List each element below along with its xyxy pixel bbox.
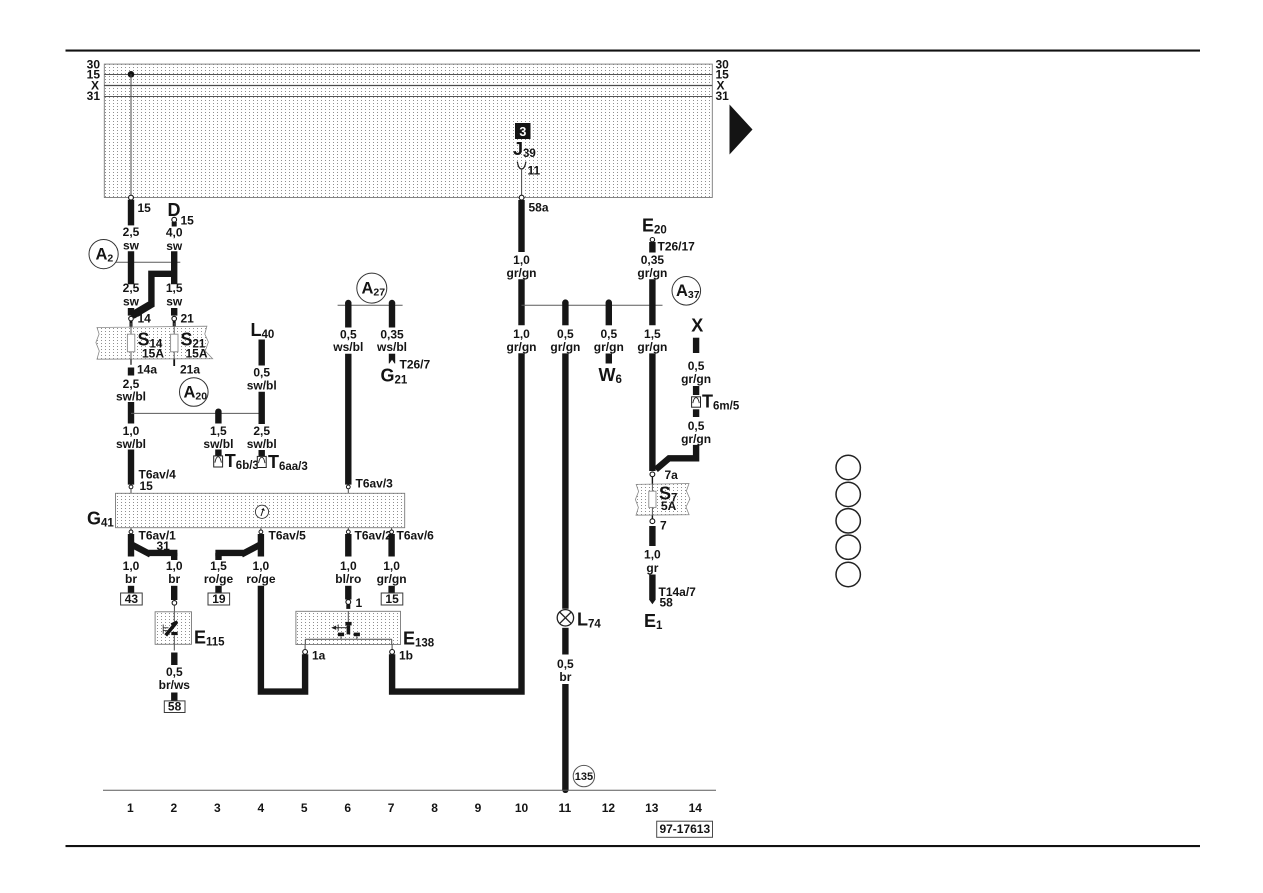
wire stub to E138 pin 1 xyxy=(345,586,351,600)
wire label 1,0 br (track1) xyxy=(123,559,140,586)
svg-text:0,5: 0,5 xyxy=(253,365,270,379)
wire 1,0 gr/gn from 58a (track10) xyxy=(518,200,524,252)
terminal T6av/1 xyxy=(129,528,176,553)
wire stub below E115 xyxy=(173,644,175,665)
wire label 1,0 gr/gn below junction xyxy=(507,327,537,354)
wire 0,5 ws/bl stub at A27 (track6) xyxy=(345,300,351,328)
terminal box 43 xyxy=(121,592,143,606)
svg-text:sw: sw xyxy=(123,295,140,309)
svg-text:3: 3 xyxy=(214,801,221,815)
svg-text:T6m/5: T6m/5 xyxy=(702,392,740,413)
wire label 1,5 ro/ge (track3) xyxy=(204,559,234,586)
svg-text:1,0: 1,0 xyxy=(644,547,661,561)
bottom page rule xyxy=(66,845,1201,847)
terminal 21a xyxy=(174,359,200,376)
wire stub to terminal 19 xyxy=(215,586,221,594)
terminal 14 xyxy=(129,312,151,327)
E138 label xyxy=(403,629,435,650)
horn W6 label xyxy=(599,365,622,386)
svg-text:gr/gn: gr/gn xyxy=(637,266,667,280)
sender G21 label xyxy=(381,366,408,387)
wire from X (track14) xyxy=(693,338,699,353)
svg-text:1,0: 1,0 xyxy=(166,559,183,573)
svg-text:E20: E20 xyxy=(642,216,667,237)
svg-text:gr/gn: gr/gn xyxy=(507,340,537,354)
wire label 2,5 sw xyxy=(123,225,140,253)
bus labels right xyxy=(716,57,730,103)
svg-text:E138: E138 xyxy=(403,629,435,650)
wire label 0,5 gr/gn below T6m/5 xyxy=(681,419,711,446)
wire label 1,0 gr/gn xyxy=(377,559,407,586)
junction stub track11 xyxy=(562,299,568,325)
svg-text:1,5: 1,5 xyxy=(644,327,661,341)
A27 junction line xyxy=(338,304,403,306)
svg-text:br: br xyxy=(125,572,137,586)
svg-text:19: 19 xyxy=(212,592,226,606)
bus labels left xyxy=(87,57,101,103)
terminal T6av/4 xyxy=(129,485,133,493)
svg-text:E115: E115 xyxy=(194,628,225,649)
svg-text:gr/gn: gr/gn xyxy=(681,432,711,446)
svg-text:58: 58 xyxy=(660,596,674,610)
binder hole 2 xyxy=(836,482,860,506)
terminal label T14a/7 58 xyxy=(659,585,697,610)
binder hole 4 xyxy=(836,535,860,559)
terminal box 58 xyxy=(164,699,185,713)
svg-text:1b: 1b xyxy=(399,649,413,663)
svg-text:31: 31 xyxy=(716,89,730,103)
svg-text:br: br xyxy=(559,670,571,684)
svg-text:15A: 15A xyxy=(142,347,164,361)
svg-text:12: 12 xyxy=(602,801,616,815)
wire label 0,35 ws/bl xyxy=(376,327,407,354)
bus line X xyxy=(104,85,712,87)
svg-text:135: 135 xyxy=(575,771,593,783)
connector T6aa/3 xyxy=(257,450,307,473)
wire label 4,0 sw xyxy=(166,226,183,253)
switch E138 box xyxy=(296,611,401,644)
wire label 2,5 sw/bl xyxy=(247,424,277,451)
diagram number box 97-17613 xyxy=(657,821,713,837)
svg-text:15A: 15A xyxy=(186,347,208,361)
svg-text:21: 21 xyxy=(181,312,195,326)
wire label 0,5 ws/bl xyxy=(332,327,363,354)
pin label 11 xyxy=(528,164,541,178)
A37 junction line xyxy=(522,304,663,306)
svg-text:gr/gn: gr/gn xyxy=(550,340,580,354)
G41 label xyxy=(87,509,114,530)
switch E115 box xyxy=(155,612,191,645)
svg-text:1: 1 xyxy=(356,596,363,610)
svg-text:sw/bl: sw/bl xyxy=(203,437,233,451)
wire label 1,0 br (track2) xyxy=(166,559,183,586)
switch E20 label xyxy=(642,216,667,237)
svg-text:1: 1 xyxy=(127,801,134,815)
svg-text:sw: sw xyxy=(123,239,140,253)
svg-text:sw: sw xyxy=(166,295,183,309)
bus line 15 xyxy=(104,74,712,76)
wire from 1b to track10 riser xyxy=(392,353,521,691)
wire label 0,5 br xyxy=(557,657,574,684)
svg-text:gr/gn: gr/gn xyxy=(637,340,667,354)
wire from T6av/1 (track1) xyxy=(128,534,134,557)
wire from T6av/6 (track7) xyxy=(388,534,394,557)
connector A20 xyxy=(180,378,209,407)
terminal T6av/6 xyxy=(390,528,434,543)
svg-text:T26/17: T26/17 xyxy=(658,240,696,254)
fuse S14 element xyxy=(127,323,134,359)
fuse S21 element xyxy=(171,323,178,359)
terminal 58a at bus box bottom xyxy=(519,195,524,200)
terminal 1 of E138 xyxy=(346,596,363,610)
svg-text:15: 15 xyxy=(140,479,154,493)
binder hole 3 xyxy=(836,509,860,533)
wire 1,5 gr/gn down to fuse S7 (track13) xyxy=(649,353,655,471)
direction arrow xyxy=(730,105,753,155)
wire label 1,5 gr/gn xyxy=(637,327,667,354)
track numbers xyxy=(127,801,702,815)
wire elbow from track2 to track1 xyxy=(151,274,174,307)
svg-text:gr/gn: gr/gn xyxy=(377,572,407,586)
svg-text:4,0: 4,0 xyxy=(166,226,183,240)
terminal box 19 xyxy=(208,592,230,606)
gauge symbol inside G41 xyxy=(255,505,268,518)
svg-text:5: 5 xyxy=(301,801,308,815)
wire stub to terminal 58 xyxy=(171,693,177,701)
svg-text:5A: 5A xyxy=(661,499,677,513)
svg-text:2,5: 2,5 xyxy=(123,225,140,239)
terminal label T26/7 xyxy=(400,358,431,372)
wire 1,0 sw/bl down to G41 (track1) xyxy=(128,450,134,485)
svg-text:15: 15 xyxy=(138,201,152,215)
wire from T6av/2 (track6) xyxy=(345,534,351,557)
bus box (stippled) xyxy=(104,64,712,197)
fuse box S7 (torn stippled) xyxy=(635,484,690,516)
svg-text:1,5: 1,5 xyxy=(210,424,227,438)
bottom track line xyxy=(103,789,716,791)
J39 label xyxy=(513,139,536,160)
svg-text:1,0: 1,0 xyxy=(340,559,357,573)
wire down to E1 terminal (track13) xyxy=(649,575,655,605)
svg-text:ws/bl: ws/bl xyxy=(332,340,363,354)
switch E1 label xyxy=(644,611,663,632)
terminal 7 xyxy=(650,515,667,532)
svg-text:14a: 14a xyxy=(137,363,157,377)
svg-text:15: 15 xyxy=(385,592,399,606)
wire diagonal T6av/5 branch xyxy=(241,545,259,555)
wire label 1,5 sw/bl xyxy=(203,424,233,451)
svg-text:14: 14 xyxy=(689,801,703,815)
svg-text:0,5: 0,5 xyxy=(557,327,574,341)
terminal T6av/2 xyxy=(346,528,392,543)
wire 0,35 ws/bl stub at A27 (track7) xyxy=(389,300,395,328)
wire 2,5 sw from bus terminal (track1) xyxy=(128,200,134,226)
wire label 0,35 gr/gn xyxy=(637,253,667,280)
terminal T6av/5 xyxy=(259,528,306,543)
terminal box 15 xyxy=(381,592,403,606)
A2 separation line xyxy=(116,261,180,263)
svg-text:sw: sw xyxy=(166,239,183,253)
wire label 0,5 sw/bl xyxy=(247,365,277,392)
connector A37 xyxy=(672,277,701,306)
svg-text:sw/bl: sw/bl xyxy=(116,390,146,404)
terminal 7a xyxy=(650,468,678,484)
junction dot on bus 15 xyxy=(128,71,135,78)
svg-text:gr: gr xyxy=(646,561,658,575)
wire 0,5 br to ground (track11) xyxy=(562,684,568,793)
svg-text:sw/bl: sw/bl xyxy=(247,379,277,393)
svg-text:1,0: 1,0 xyxy=(513,327,530,341)
wire below lamp xyxy=(562,628,568,655)
wire stub below T6m/5 xyxy=(693,409,699,417)
terminal label 58a xyxy=(529,201,549,215)
svg-text:T6av/3: T6av/3 xyxy=(356,477,394,491)
switch E115 contacts xyxy=(163,612,178,645)
wire 1,0 gr below fuse xyxy=(649,526,655,546)
fork symbol at J39 pin 11 xyxy=(517,162,526,169)
terminal label T6av/4 15 xyxy=(139,468,177,494)
wire 2,5 sw below A2 (track1) xyxy=(128,251,134,284)
svg-text:1,5: 1,5 xyxy=(210,559,227,573)
terminal T26/17 of E20 xyxy=(650,238,695,254)
connector D xyxy=(168,200,195,228)
fuse S7 element xyxy=(649,484,656,515)
terminal 21 xyxy=(172,312,194,327)
terminal T6av/3 xyxy=(346,477,393,494)
svg-text:ro/ge: ro/ge xyxy=(204,572,234,586)
svg-text:gr/gn: gr/gn xyxy=(681,372,711,386)
svg-text:2,5: 2,5 xyxy=(123,281,140,295)
wire label 2,5 sw xyxy=(123,281,140,309)
svg-text:10: 10 xyxy=(515,801,529,815)
bus line 31 xyxy=(104,96,712,98)
svg-text:0,5: 0,5 xyxy=(600,327,617,341)
svg-text:W6: W6 xyxy=(599,365,622,386)
wire stub to W6 xyxy=(606,354,612,364)
svg-text:L40: L40 xyxy=(251,320,275,341)
svg-text:31: 31 xyxy=(87,89,101,103)
svg-text:ro/ge: ro/ge xyxy=(246,572,276,586)
svg-text:2: 2 xyxy=(171,801,178,815)
svg-text:7: 7 xyxy=(660,519,667,533)
fuse box S14/S21 (torn stippled) xyxy=(96,326,213,359)
plug connection X label xyxy=(691,316,703,336)
svg-text:11: 11 xyxy=(528,164,541,178)
wire stub to terminal 43 xyxy=(128,586,134,594)
wire 2,5 sw/bl (track1) xyxy=(128,402,134,424)
junction stub to T6b/3 branch xyxy=(215,409,221,424)
svg-text:T26/7: T26/7 xyxy=(400,358,431,372)
wire label 1,0 sw/bl xyxy=(116,424,146,451)
connector T6b/3 xyxy=(214,450,259,473)
relay slot number 3 (J39) xyxy=(515,123,531,139)
svg-text:T6aa/3: T6aa/3 xyxy=(268,452,308,473)
wire label 1,0 bl/ro xyxy=(335,559,361,586)
connector T6m/5 xyxy=(692,386,740,413)
svg-text:L74: L74 xyxy=(577,610,601,631)
wire label 1,5 sw xyxy=(166,281,183,309)
wire stub into fuse terminal 21 xyxy=(171,308,177,316)
svg-text:br: br xyxy=(168,572,180,586)
fuse S7 label xyxy=(659,484,677,514)
binder hole 5 xyxy=(836,562,860,586)
wire (thin) J39 pin 11 down xyxy=(521,169,523,197)
wire label 0,5 gr/gn (track11) xyxy=(550,327,580,354)
wire stub to E115 xyxy=(171,586,177,600)
junction stub track12 xyxy=(606,299,612,325)
fuse S21 label xyxy=(181,330,208,361)
svg-text:97-17613: 97-17613 xyxy=(659,822,710,836)
svg-text:8: 8 xyxy=(431,801,438,815)
svg-text:0,35: 0,35 xyxy=(641,253,665,267)
svg-text:1,5: 1,5 xyxy=(166,281,183,295)
svg-text:3: 3 xyxy=(519,125,526,139)
lamp L40 label xyxy=(251,320,275,341)
terminal at E115 xyxy=(172,601,177,612)
wire diagonal T6av/1 branch xyxy=(133,545,151,555)
svg-text:7a: 7a xyxy=(665,468,679,482)
terminal at bus box bottom (track1) xyxy=(129,195,134,200)
wire label 0,5 gr/gn (track14) xyxy=(681,359,711,386)
fuse S14 label xyxy=(138,330,165,361)
svg-text:21a: 21a xyxy=(180,363,200,377)
svg-text:0,5: 0,5 xyxy=(688,419,705,433)
terminal 1a xyxy=(303,645,326,663)
wire label 2,5 sw/bl xyxy=(116,377,146,404)
wire stub down track3 xyxy=(215,553,221,560)
svg-text:br/ws: br/ws xyxy=(159,678,191,692)
A20 junction line xyxy=(131,412,262,414)
svg-text:9: 9 xyxy=(475,801,482,815)
terminal 1b xyxy=(390,645,413,663)
wire stub to G21 xyxy=(389,354,394,364)
svg-text:13: 13 xyxy=(645,801,659,815)
svg-text:sw/bl: sw/bl xyxy=(116,437,146,451)
wire 0,5 ws/bl down to T6av/3 (track6) xyxy=(345,354,351,485)
svg-text:0,5: 0,5 xyxy=(557,657,574,671)
svg-text:11: 11 xyxy=(559,801,572,815)
wire label 0,5 br/ws xyxy=(159,665,191,692)
wire from T6av/5 (track4) xyxy=(258,534,264,557)
svg-text:T6b/3: T6b/3 xyxy=(225,451,259,472)
svg-text:G41: G41 xyxy=(87,509,114,530)
svg-text:1,0: 1,0 xyxy=(513,253,530,267)
svg-text:1,0: 1,0 xyxy=(123,424,140,438)
ground junction 135 xyxy=(573,765,594,786)
top page rule xyxy=(66,50,1201,52)
svg-text:7: 7 xyxy=(388,801,395,815)
wire through A37 junction (track10) xyxy=(518,279,524,325)
svg-text:gr/gn: gr/gn xyxy=(594,340,624,354)
wire (thin) from dot to bus box bottom xyxy=(130,74,132,197)
svg-text:sw/bl: sw/bl xyxy=(247,437,277,451)
wire stub into fuse terminal 14 xyxy=(128,308,134,316)
svg-text:58a: 58a xyxy=(529,201,549,215)
wire through junction (track13) xyxy=(649,279,655,325)
wire stub down track2 xyxy=(171,553,177,560)
svg-text:1a: 1a xyxy=(312,649,326,663)
binder hole 1 xyxy=(836,455,860,479)
svg-text:bl/ro: bl/ro xyxy=(335,572,361,586)
svg-text:E1: E1 xyxy=(644,611,663,632)
svg-text:0,5: 0,5 xyxy=(688,359,705,373)
svg-text:T6av/6: T6av/6 xyxy=(397,529,435,543)
terminal label 15 xyxy=(138,201,152,215)
lamp L74 xyxy=(557,610,601,631)
terminal 14a xyxy=(131,359,157,376)
svg-text:4: 4 xyxy=(257,801,264,815)
connector A27 xyxy=(357,273,387,303)
svg-text:T6av/2: T6av/2 xyxy=(355,529,393,543)
wire label 0,5 gr/gn (track12) xyxy=(594,327,624,354)
svg-text:ws/bl: ws/bl xyxy=(376,340,407,354)
wire horizontal to track2 xyxy=(149,550,178,556)
svg-text:15: 15 xyxy=(181,214,195,228)
svg-text:58: 58 xyxy=(168,699,182,713)
wire elbow from track14 into track13 xyxy=(656,445,696,470)
svg-text:1,0: 1,0 xyxy=(253,559,270,573)
wire label 1,0 gr xyxy=(644,547,661,575)
svg-text:2,5: 2,5 xyxy=(253,424,270,438)
connector A2 xyxy=(89,240,118,269)
wire 0,5 sw/bl from L40 (track4) xyxy=(259,340,265,366)
wire stub to terminal 15 box xyxy=(388,586,394,594)
svg-text:gr/gn: gr/gn xyxy=(507,266,537,280)
wire label 1,0 ro/ge (track4) xyxy=(246,559,276,586)
E115 label xyxy=(194,628,225,649)
switch E138 contacts xyxy=(305,611,391,644)
gauge unit G41 box xyxy=(116,493,405,527)
wire label 1,0 gr/gn xyxy=(507,253,537,280)
wire diagonal into terminal 14 xyxy=(128,302,155,319)
wire 1,0 ro/ge down and to E138 pin 1a xyxy=(261,586,305,692)
wire horizontal to track3 xyxy=(215,550,243,556)
wire 4,0 sw from D (track2) xyxy=(171,251,177,284)
wire down to lamp L74 (track11) xyxy=(562,353,568,608)
wire 2,5 sw/bl through junction (track4) xyxy=(259,392,265,424)
svg-text:X: X xyxy=(691,316,703,336)
svg-text:43: 43 xyxy=(125,592,139,606)
svg-text:1,0: 1,0 xyxy=(383,559,400,573)
svg-text:T6av/5: T6av/5 xyxy=(269,529,307,543)
svg-text:6: 6 xyxy=(344,801,351,815)
svg-text:1,0: 1,0 xyxy=(123,559,140,573)
